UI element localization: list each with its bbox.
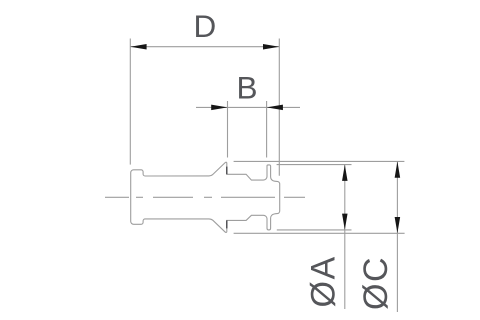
B right arrow (267, 105, 283, 111)
svg-text:B: B (237, 69, 258, 105)
barb edge dark segment bottom (226, 220, 228, 228)
D left arrow (130, 44, 146, 50)
D dimension line (130, 46, 279, 48)
barb edge dark segment top (226, 167, 228, 175)
diaC dimension line (396, 161, 398, 312)
D extension lines (129, 39, 131, 165)
svg-text:ØA: ØA (304, 255, 342, 307)
D right arrow (263, 44, 279, 50)
svg-text:ØC: ØC (357, 256, 395, 310)
diaA dimension line (344, 165, 346, 309)
diaA extension lines (277, 164, 352, 166)
diaC bottom arrow (395, 217, 401, 233)
diaC top arrow (395, 161, 401, 177)
B left arrow (211, 105, 227, 111)
centerline (105, 196, 306, 198)
B extension lines (227, 101, 229, 158)
diaA top arrow (342, 165, 348, 181)
diaA bottom arrow (342, 214, 348, 230)
svg-text:D: D (194, 8, 217, 44)
B dimension line (196, 106, 300, 108)
fitting body outline (131, 162, 280, 232)
diaC extension lines (234, 160, 405, 162)
